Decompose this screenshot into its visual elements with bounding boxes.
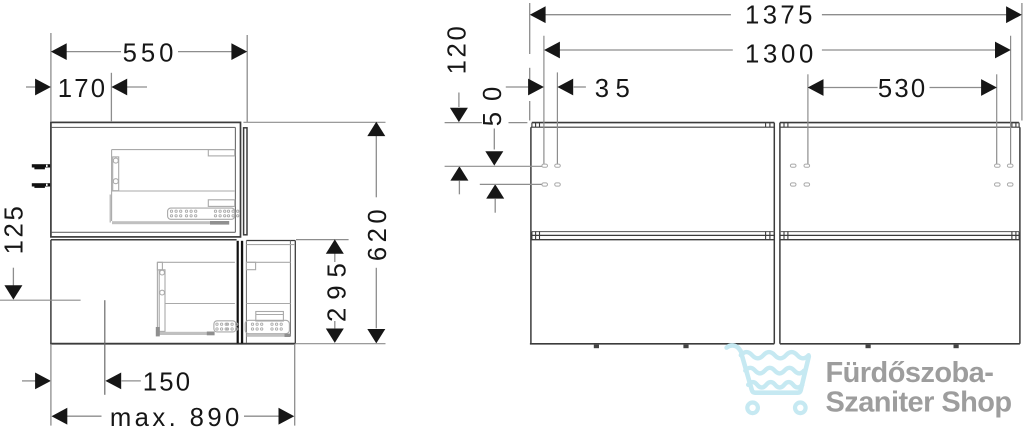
svg-text:Fürdőszoba-: Fürdőszoba-	[826, 357, 994, 389]
svg-text:35: 35	[595, 75, 637, 103]
svg-text:max. 890: max. 890	[110, 404, 243, 432]
dimension 530	[808, 74, 997, 164]
svg-text:550: 550	[123, 40, 178, 68]
svg-text:Szaniter Shop: Szaniter Shop	[826, 387, 1012, 419]
svg-text:620: 620	[364, 205, 392, 261]
dimension 550 (top of side view)	[51, 33, 247, 122]
dimension 620 (right of side view, rotated)	[243, 122, 392, 344]
front view: feet	[594, 345, 959, 349]
dimension 1375	[530, 2, 1022, 121]
side view: lower drawer internals right	[245, 245, 295, 334]
svg-text:1375: 1375	[745, 2, 816, 30]
side view: upper drawer internals	[110, 150, 235, 223]
dimension 35	[506, 72, 636, 163]
dimension 50 (rotated)	[445, 76, 542, 213]
side view: upper cabinet box outline	[51, 122, 241, 236]
front view: right cabinet outline	[780, 123, 1020, 344]
side view: lower drawer front panel (thick edge-on)	[237, 241, 244, 343]
watermark: shop name text	[826, 357, 1012, 419]
side view: upper drawer front panel	[244, 128, 247, 235]
front view: left cabinet outline	[530, 123, 774, 344]
dimension 150	[22, 369, 192, 397]
side view: upper drawer slide rail bar	[112, 221, 229, 225]
dimension 1300	[544, 36, 1011, 164]
front view: handle drill holes	[542, 164, 1013, 186]
side view: lower drawer internals left	[157, 262, 236, 332]
svg-text:50: 50	[479, 76, 507, 127]
dimension 295 (rotated)	[295, 239, 385, 343]
dimension max. 890	[51, 344, 295, 432]
svg-text:170: 170	[58, 75, 107, 103]
svg-text:125: 125	[0, 204, 28, 255]
side view: lower cabinet box outline	[50, 240, 295, 344]
side view: upper drawer dot perforations	[170, 210, 239, 217]
side view: siphon cut-out line	[104, 300, 106, 395]
watermark: shopping cart icon	[727, 345, 809, 413]
dimension 120 (rotated)	[444, 24, 528, 195]
side view: wall mounting brackets	[32, 164, 50, 188]
side view: lower slide rail bars	[156, 327, 290, 337]
dimension 170	[26, 73, 147, 122]
svg-text:530: 530	[878, 75, 927, 103]
svg-text:295: 295	[323, 255, 351, 322]
svg-text:120: 120	[444, 24, 472, 75]
dimension 125 (left, rotated)	[0, 204, 81, 301]
svg-text:150: 150	[143, 369, 192, 397]
svg-text:1300: 1300	[745, 40, 817, 68]
side view: lower drawer dot perforations	[216, 323, 283, 330]
